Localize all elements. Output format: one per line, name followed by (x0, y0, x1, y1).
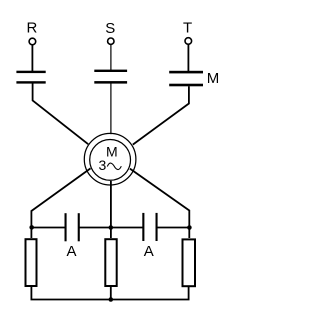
svg-text:A: A (66, 243, 76, 260)
svg-text:S: S (105, 20, 115, 37)
svg-text:3: 3 (99, 157, 107, 173)
svg-text:M: M (106, 143, 118, 159)
svg-text:A: A (144, 243, 154, 260)
svg-text:M: M (207, 70, 220, 87)
svg-text:R: R (26, 20, 37, 37)
svg-text:T: T (183, 20, 192, 37)
